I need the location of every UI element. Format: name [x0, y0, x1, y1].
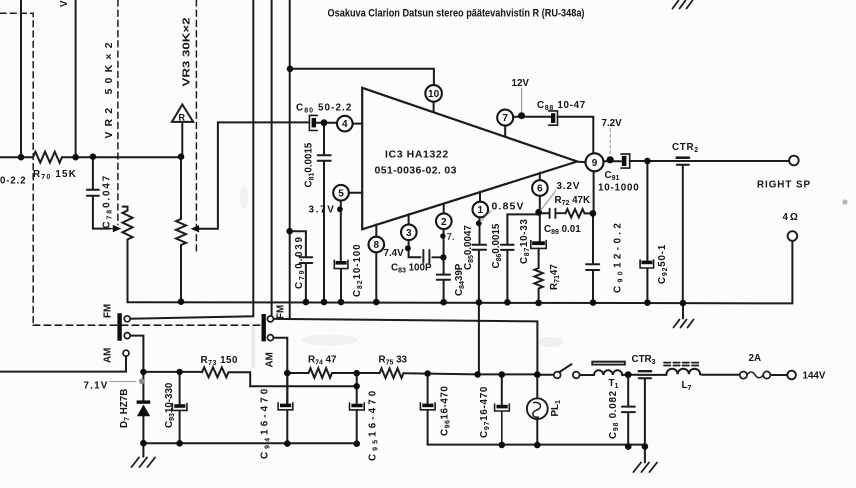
wire R74 to R75 — [332, 372, 380, 374]
svg-text:7: 7 — [502, 113, 508, 124]
svg-text:7.: 7. — [447, 232, 455, 243]
svg-text:12V: 12V — [512, 78, 530, 89]
svg-text:4: 4 — [342, 119, 348, 130]
svg-text:VR3 30K×2: VR3 30K×2 — [182, 17, 193, 86]
svg-text:1: 1 — [478, 205, 484, 216]
triangle R channel symbol — [172, 105, 193, 122]
wire PL1 top — [536, 375, 538, 399]
svg-text:L7: L7 — [682, 380, 692, 392]
capacitor C95 electrolytic — [351, 404, 362, 408]
7.2V dashed leader — [609, 129, 611, 155]
wire R71 to bus — [538, 289, 540, 303]
svg-text:R7147: R7147 — [549, 264, 561, 290]
CTR2 stem to bus — [682, 165, 684, 303]
leader 7.1V — [110, 381, 137, 383]
svg-text:C9012-0.2: C9012-0.2 — [613, 220, 625, 293]
wire apex to pin9 — [577, 161, 585, 163]
wire 4ohm down to bus — [791, 241, 793, 304]
ground stub under bus — [682, 303, 684, 318]
capacitor C80 electrolytic bracket — [309, 115, 317, 130]
wire FM1 mid to D7 — [130, 336, 143, 401]
wire pin9 down — [592, 171, 595, 264]
svg-text:C8710-33: C8710-33 — [519, 218, 531, 264]
ground hash CTR3 — [634, 463, 658, 473]
dashed link FM switches — [33, 324, 261, 326]
wire pin1 down — [479, 217, 481, 244]
svg-text:10-1000: 10-1000 — [598, 183, 640, 194]
wire long vertical x289 — [289, 0, 291, 319]
resistor R71 — [534, 268, 542, 289]
op-amp IC3 triangle — [362, 88, 577, 230]
wire L7 to fuse — [700, 373, 740, 376]
wire pin5 down — [340, 200, 342, 261]
leader 0.85V — [480, 211, 492, 223]
wire pin8 down to bus — [375, 252, 377, 302]
wire pin2 stub — [443, 203, 445, 213]
svg-text:C91: C91 — [605, 170, 620, 182]
capacitor C98 — [622, 407, 635, 447]
zener D7 bar — [137, 400, 151, 403]
wire C88 to pin9 top — [558, 117, 594, 154]
power switch lever — [560, 364, 572, 372]
op-amp pin 3 — [401, 225, 417, 241]
svg-text:5: 5 — [338, 188, 344, 199]
capacitor C97 electrolytic — [497, 405, 508, 409]
svg-text:2: 2 — [441, 217, 447, 228]
wire pin5 stub — [349, 192, 362, 194]
fuse F1 circle b — [763, 371, 770, 378]
svg-text:3.2V: 3.2V — [557, 181, 581, 192]
wire pin3 stub — [408, 214, 410, 224]
svg-text:C9716-470: C9716-470 — [479, 386, 491, 438]
resistor R72 — [566, 209, 585, 217]
svg-text:10: 10 — [428, 89, 440, 100]
wire T1 to CTR3 junction — [628, 374, 638, 376]
wire C93 branch — [179, 372, 181, 404]
wire C93 to rail — [179, 411, 181, 444]
VR3 wiper wire to C80 — [198, 122, 310, 228]
ground hash right — [674, 320, 694, 328]
wiper arrow into VR2 — [110, 228, 118, 230]
svg-text:144V: 144V — [803, 371, 826, 382]
op-amp pin 8 — [369, 237, 385, 253]
FM1 contact top — [124, 316, 130, 322]
smudges — [240, 185, 848, 368]
FM switch 2 bar — [262, 314, 266, 341]
svg-text:C780.047: C780.047 — [102, 174, 114, 229]
wire pin6 down — [539, 196, 541, 242]
CTR3 through wire to L7 — [638, 374, 666, 376]
wire pin6 stub — [539, 173, 541, 181]
terminal RIGHT SP — [789, 156, 799, 166]
R symbol stem — [181, 122, 183, 157]
pin circles — [333, 85, 603, 252]
svg-text:C89 0.01: C89 0.01 — [544, 224, 581, 236]
arrowheads — [113, 225, 199, 233]
svg-text:R72 47K: R72 47K — [555, 195, 591, 207]
potentiometer VR2 — [123, 211, 133, 240]
capacitor C87 electrolytic — [531, 241, 546, 249]
arrowhead VR3 wiper — [191, 225, 200, 232]
op-amp pin 7 — [497, 110, 513, 126]
wire fuse to 144V terminal — [770, 374, 787, 376]
FM switch 1 bar — [117, 313, 121, 341]
svg-text:C80 50-2.2: C80 50-2.2 — [296, 103, 352, 115]
svg-text:C860.0015: C860.0015 — [491, 223, 503, 268]
svg-text:C9616-470: C9616-470 — [440, 386, 452, 436]
svg-text:2A: 2A — [749, 353, 762, 364]
wire C95 down — [356, 373, 358, 403]
wire C85 to bus and AM rail — [478, 250, 480, 375]
ground hash D7 — [132, 458, 156, 468]
rail AM left — [143, 442, 357, 444]
rotated labels — [59, 0, 669, 461]
wire R74 row — [287, 372, 308, 374]
lamp PL1 — [527, 398, 548, 419]
capacitor C88 electrolytic bracket — [549, 111, 558, 125]
wire pin10 stub — [433, 102, 435, 113]
svg-text:C83 100P: C83 100P — [391, 262, 432, 274]
wire pin3 down — [409, 240, 421, 257]
transformer T1 winding — [594, 370, 628, 375]
wire node to power switch — [537, 374, 553, 376]
dashed link corner top-left — [0, 13, 33, 325]
capacitor C82 electrolytic — [334, 260, 348, 268]
12V leader — [521, 88, 523, 112]
capacitor C84 — [437, 275, 450, 303]
wire switch to T1 — [580, 374, 594, 376]
svg-text:6: 6 — [537, 184, 543, 195]
wire pin10 top — [290, 69, 434, 85]
wire C80 to pin4 — [317, 122, 337, 124]
VR3 top lead — [180, 157, 182, 219]
CTR3 stem down — [644, 379, 646, 447]
svg-text:FM: FM — [103, 304, 114, 318]
wire D7 to rail — [142, 416, 144, 443]
svg-text:8: 8 — [374, 240, 380, 251]
wire vertical x75 — [75, 0, 77, 157]
svg-text:RIGHT SP: RIGHT SP — [757, 180, 810, 191]
transformer T1 core — [591, 361, 626, 366]
ground stub CTR3 — [644, 446, 646, 462]
capacitor C96 electrolytic — [422, 404, 433, 408]
svg-text:3: 3 — [406, 228, 412, 239]
svg-text:PL1: PL1 — [550, 400, 562, 417]
op-amp pin 9 — [586, 153, 604, 171]
grey voltage labels — [84, 78, 623, 392]
svg-text:R: R — [179, 113, 186, 123]
FM2 contact bottom — [267, 335, 273, 341]
capacitor C83 — [423, 250, 443, 263]
svg-text:C850.0047: C850.0047 — [463, 225, 475, 270]
wire pin1 stub — [479, 192, 481, 202]
svg-text:AM: AM — [265, 352, 276, 367]
power switch contact 2 — [573, 372, 580, 379]
trimmer CTR2 — [677, 156, 689, 159]
svg-text:Osakuva Clarion Datsun stereo: Osakuva Clarion Datsun stereo päätevahvi… — [328, 8, 585, 20]
svg-text:V: V — [59, 0, 70, 7]
potentiometer VR3 — [176, 219, 186, 245]
arrowhead VR2 wiper — [113, 225, 122, 232]
capacitor C81 — [318, 155, 331, 302]
wire pin4 node down C81 — [323, 123, 325, 155]
wire input left top — [0, 156, 33, 158]
svg-text:C88 10-47: C88 10-47 — [537, 100, 586, 112]
svg-text:0-2.2: 0-2.2 — [0, 176, 26, 187]
svg-text:C98 0.082: C98 0.082 — [608, 390, 620, 439]
wire pin8 stub — [375, 224, 377, 236]
resistor R73 — [202, 367, 228, 377]
wire C79 branch — [290, 231, 306, 257]
VR2 top lead hook — [123, 207, 128, 211]
svg-text:AM: AM — [103, 348, 114, 363]
FM1 contact mid — [124, 333, 130, 339]
capacitor C89 — [550, 209, 566, 218]
capacitor C79 — [300, 257, 313, 302]
svg-text:T1: T1 — [609, 378, 619, 390]
svg-text:0.85V: 0.85V — [492, 201, 525, 212]
ground hash top center — [673, 1, 693, 9]
inductor L7 winding — [667, 369, 701, 375]
svg-text:4Ω: 4Ω — [783, 212, 800, 223]
svg-text:C810.0015: C810.0015 — [304, 142, 316, 187]
wire R70 to VR3 top — [62, 156, 181, 158]
wire FM2 top to PL1 node — [274, 319, 538, 375]
svg-text:3.7V: 3.7V — [309, 204, 336, 215]
dashed link VR3 — [195, 0, 197, 252]
leader 3.2V — [541, 191, 557, 211]
resistor R74 — [309, 368, 333, 378]
svg-text:R73 150: R73 150 — [201, 355, 238, 367]
capacitor C86 — [501, 245, 514, 303]
wire pin2 down — [443, 229, 445, 274]
capacitor C94 electrolytic — [280, 404, 291, 408]
wire C94 down — [286, 373, 288, 403]
fuse F1 circle a — [740, 372, 747, 379]
svg-text:R70 15K: R70 15K — [33, 169, 77, 181]
wire pin7 stub — [504, 126, 506, 137]
ground stub D7 — [142, 443, 144, 457]
wire vertical x21 — [20, 0, 22, 157]
capacitor C92 electrolytic — [640, 260, 654, 268]
svg-text:051-0036-02. 03: 051-0036-02. 03 — [375, 165, 457, 177]
wire AM1 to left — [0, 356, 126, 371]
svg-text:D7 HZ7B: D7 HZ7B — [119, 389, 131, 428]
wire long vertical x271 to FM2 — [271, 0, 273, 316]
ground bus main — [128, 302, 793, 303]
wire R73 step down — [229, 372, 357, 386]
zener D7 triangle — [137, 405, 150, 417]
FM2 contact top — [267, 316, 273, 322]
svg-text:7.1V: 7.1V — [84, 381, 109, 392]
svg-text:C9416-470: C9416-470 — [260, 386, 272, 459]
op-amp pin 1 — [473, 202, 489, 218]
svg-text:7.4V: 7.4V — [384, 248, 405, 259]
svg-text:R75 33: R75 33 — [379, 355, 408, 367]
dashed link VR2 — [117, 0, 119, 225]
wire R75 to PL1 node — [404, 373, 538, 374]
wire pin6 to C89 — [539, 212, 550, 214]
terminal 144V — [787, 371, 796, 380]
op-amp pin 5 — [333, 185, 349, 201]
op-amp pin 4 — [337, 116, 353, 132]
wire C87 to R71 — [538, 249, 540, 268]
wire D7 node right — [143, 371, 202, 373]
FM1 contact AM — [123, 350, 129, 356]
VR2 bottom lead to bus — [127, 240, 129, 303]
wire C92 branch — [646, 161, 648, 260]
svg-text:FM: FM — [276, 305, 287, 319]
svg-text:C9310-330: C9310-330 — [164, 382, 176, 428]
rail AM right — [428, 444, 645, 446]
capacitor C85 — [472, 245, 486, 250]
op-amp pin 6 — [532, 180, 548, 196]
svg-text:C9516-470: C9516-470 — [368, 388, 380, 461]
op-amp pin 2 — [436, 213, 452, 229]
wire C82 to bus — [340, 269, 342, 302]
wire C97 down — [501, 375, 503, 405]
wire C96 down — [427, 374, 429, 404]
wire R72 to pin9 line — [585, 212, 593, 214]
wire pin7 to C88 — [513, 116, 551, 118]
capacitor C98 branch — [627, 375, 629, 407]
svg-text:CTR2: CTR2 — [672, 142, 699, 154]
wire FM2 bottom to R74 — [274, 338, 288, 404]
resistor R70 — [33, 152, 62, 163]
power switch contact 1 — [554, 372, 561, 379]
svg-text:C790.039: C790.039 — [294, 235, 306, 289]
svg-text:7.2V: 7.2V — [602, 118, 623, 129]
svg-text:C9250-1: C9250-1 — [657, 244, 669, 284]
trimmer CTR3 — [639, 370, 651, 372]
svg-text:R74 47: R74 47 — [308, 355, 337, 367]
capacitor C93 electrolytic — [174, 404, 185, 408]
wire C86 to pin6 node — [507, 214, 538, 244]
wire C92 to bus — [646, 268, 648, 302]
wire pin9 out — [604, 160, 621, 162]
svg-text:VR2 50K×2: VR2 50K×2 — [104, 42, 115, 138]
VR3 bottom lead to bus — [180, 245, 182, 302]
inductor L7 core dashes — [664, 363, 698, 366]
grey leaders — [110, 191, 557, 382]
wire long vertical x252 to FM1 — [130, 0, 253, 319]
op-amp pin 10 — [425, 85, 442, 102]
svg-text:9: 9 — [592, 158, 598, 169]
wire C91 to CTR2 to RIGHT SP — [630, 160, 790, 162]
capacitor C91 electrolytic bracket — [621, 154, 630, 168]
svg-text:CTR3: CTR3 — [632, 354, 656, 366]
wire PL1 bottom — [536, 419, 538, 445]
svg-text:C8210-100: C8210-100 — [352, 244, 364, 297]
resistor R75 — [380, 368, 404, 378]
capacitor C78 — [87, 157, 110, 229]
svg-text:IC3 HA1322: IC3 HA1322 — [385, 149, 449, 161]
fuse F1 link — [747, 372, 763, 378]
terminal 4ohm — [788, 231, 798, 241]
capacitor C90 — [586, 264, 599, 302]
wire pin4 stub — [353, 123, 363, 125]
